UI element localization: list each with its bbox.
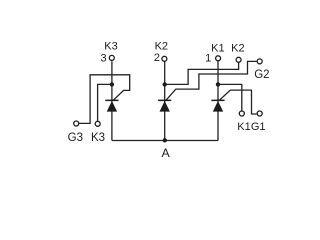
svg-text:G2: G2 [254, 69, 269, 81]
K1 auxiliary cathode terminal circle [239, 111, 244, 116]
thyristor T3 triangle (anode->cathode) [107, 101, 117, 112]
svg-text:K3: K3 [104, 41, 117, 53]
junction dot T3 cathode node [110, 82, 114, 86]
svg-text:K3: K3 [91, 132, 105, 144]
wire: T1 auxiliary cathode route (dot to K1 aux terminal) [218, 84, 242, 110]
wire: T2 auxiliary cathode route (dot to K2 aux terminal) [165, 63, 239, 85]
thyristor T3 main cathode wire (terminal 3/K3 to bus) [111, 61, 113, 140]
thyristor T2 main cathode wire (terminal 2/K2 to bus) [164, 62, 166, 141]
svg-text:A: A [161, 146, 170, 160]
junction dot T1 cathode node [216, 82, 220, 86]
junction dot anode bus node A [163, 138, 167, 142]
thyristor T1 triangle (anode->cathode) [213, 101, 223, 112]
thyristor T1 cathode bar [211, 100, 224, 102]
svg-text:1: 1 [205, 52, 211, 64]
terminal 1 / K1 main terminal circle [216, 56, 221, 61]
svg-text:2: 2 [154, 52, 160, 64]
svg-text:K2: K2 [155, 41, 168, 53]
wire: T3 auxiliary cathode route (dot to K3 aux terminal) [98, 84, 112, 121]
svg-text:G1: G1 [251, 121, 266, 133]
svg-text:K2: K2 [231, 42, 244, 54]
svg-text:3: 3 [100, 52, 106, 64]
thyristor T1 main cathode wire (terminal 1/K1 to bus) [217, 61, 219, 140]
svg-text:G3: G3 [68, 132, 83, 144]
thyristor T2 triangle (anode->cathode) [160, 101, 170, 112]
junction dot T2 cathode node [163, 82, 167, 86]
thyristor T3 cathode bar [105, 100, 118, 102]
wire: T2 gate route (bar to G2 terminal) [166, 61, 257, 100]
wire: T3 gate route (bar to G3 terminal) [79, 75, 130, 124]
terminal 2 / K2 main terminal circle [162, 56, 167, 61]
thyristor T2 cathode bar [158, 100, 171, 102]
wire: T1 gate route (bar to G1 terminal) [219, 90, 256, 114]
G2 gate terminal circle [257, 59, 262, 64]
K3 auxiliary cathode terminal circle [95, 121, 100, 126]
svg-text:K1: K1 [211, 42, 224, 54]
K2 auxiliary cathode terminal circle [236, 57, 241, 62]
G3 gate terminal circle [74, 121, 79, 126]
wire: common anode bus A [112, 140, 218, 142]
svg-text:K1: K1 [237, 121, 250, 133]
G1 gate terminal circle [257, 111, 262, 116]
terminal 3 / K3 main terminal circle [109, 55, 114, 60]
